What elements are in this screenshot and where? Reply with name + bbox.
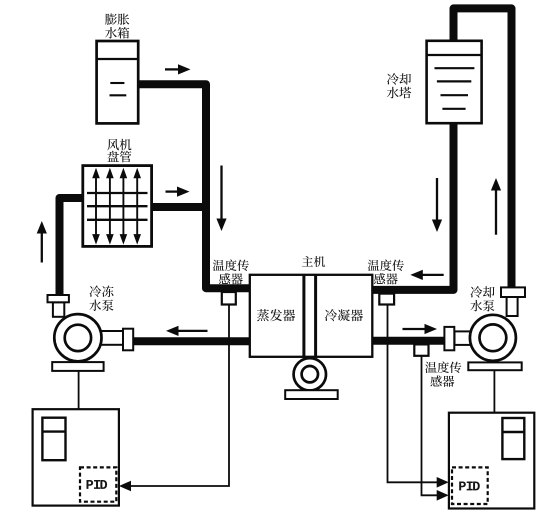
label: PID left xyxy=(86,480,93,489)
wire: right pump to PID controller xyxy=(493,370,495,413)
label: fan coil 风机盘管 xyxy=(107,139,119,150)
flow arrow up beside chilled riser xyxy=(41,232,43,263)
wire: expansion tank outlet pipe down to evaporator inlet xyxy=(139,84,251,288)
arrowhead into left PID xyxy=(119,481,131,492)
wire: pump inlet temperature sensor to right PID xyxy=(422,356,438,496)
left PID inner device rect xyxy=(42,418,65,461)
flow arrow right above tank outlet xyxy=(165,68,180,70)
divider lines xyxy=(302,275,305,357)
flow arrow down beside tower downpipe xyxy=(436,178,438,221)
left PID dashed box xyxy=(80,467,116,501)
fan coil unit box 风机盘管 xyxy=(83,166,152,247)
flow arrow right above condenser outlet pipe xyxy=(403,328,427,330)
wire: fan coil outlet pipe to main riser xyxy=(152,203,209,211)
wire: condenser temperature sensor to right PID xyxy=(388,305,438,483)
label: temp sensor right upper 温度传感器 xyxy=(368,260,380,271)
left PID controller box xyxy=(33,409,119,505)
cooling tower box 冷却水塔 xyxy=(427,41,482,123)
main unit box with evaporator and condenser 主机 xyxy=(250,275,372,357)
compressor circle under main unit xyxy=(294,358,326,390)
label: evaporator 蒸发器 xyxy=(257,309,269,321)
right PID dashed box xyxy=(452,467,488,504)
chilled water pump 冷冻水泵 xyxy=(48,295,134,371)
flow arrow down beside riser xyxy=(220,166,222,221)
arrowhead into right PID lower xyxy=(437,490,449,501)
right PID controller box xyxy=(449,413,534,509)
label: main unit 主机 xyxy=(302,256,313,267)
flow arrow left above pump outlet pipe xyxy=(177,330,208,332)
temperature sensor on pump inlet pipe xyxy=(414,344,428,355)
temperature sensor on evaporator inlet pipe xyxy=(222,292,236,305)
wire: left pump to PID controller xyxy=(78,371,80,409)
wire: cooling tower downpipe to condenser inlet xyxy=(372,123,454,290)
arrowhead into right PID upper xyxy=(437,477,449,488)
compressor base plate xyxy=(285,390,338,399)
label: PID right xyxy=(459,482,466,491)
wire: condenser outlet to cooling water pump inlet xyxy=(372,337,445,345)
expansion tank box xyxy=(97,41,139,123)
flow arrow up beside cooling riser xyxy=(495,189,497,235)
right PID inner device rect xyxy=(502,418,524,459)
label: cooling water pump 冷却水泵 xyxy=(470,286,482,298)
label: condenser 冷凝器 xyxy=(325,309,337,321)
label: temp sensor left 温度传感器 xyxy=(213,260,225,271)
flow arrow right above fan coil outlet xyxy=(166,190,179,192)
wire: chilled water riser from pump to fan coil inlet xyxy=(60,198,84,296)
flow arrow left above condenser inlet pipe xyxy=(421,274,443,276)
temperature sensor on condenser inlet pipe xyxy=(379,294,394,305)
wire: chilled water pump outlet to evaporator xyxy=(133,337,251,345)
cooling water pump 冷却水泵 xyxy=(444,287,525,370)
label: chilled water pump 冷冻水泵 xyxy=(89,285,101,297)
label: temp sensor right lower 温度传感器 xyxy=(425,362,437,373)
label: expansion tank 膨胀水箱 xyxy=(105,13,117,24)
wire: cooling water pump riser over top to tower xyxy=(454,8,512,288)
label: cooling tower 冷却水塔 xyxy=(387,73,399,85)
wire: left temperature sensor to left PID xyxy=(130,305,229,487)
